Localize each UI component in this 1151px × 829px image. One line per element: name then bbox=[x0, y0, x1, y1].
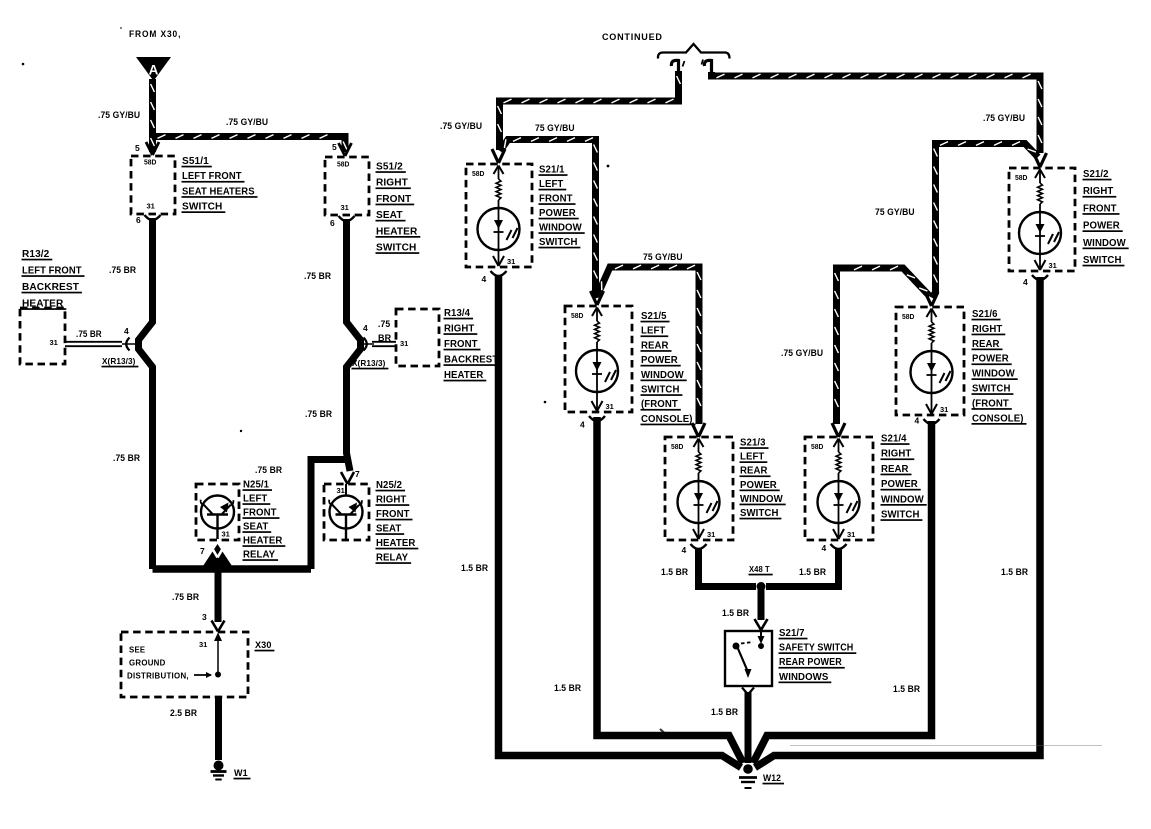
svg-text:W12: W12 bbox=[763, 773, 781, 783]
svg-text:31: 31 bbox=[507, 257, 515, 266]
svg-text:S21/6: S21/6 bbox=[972, 309, 998, 320]
svg-text:REAR: REAR bbox=[641, 340, 669, 351]
label .75 BR bbox=[172, 592, 199, 603]
svg-text:31: 31 bbox=[1049, 261, 1057, 270]
scan flecks bbox=[22, 63, 610, 432]
label .75 BR bbox=[113, 453, 140, 464]
svg-text:1.5 BR: 1.5 BR bbox=[461, 563, 488, 574]
svg-text:31: 31 bbox=[147, 202, 155, 211]
label S21/4 bbox=[881, 434, 927, 521]
svg-text:BACKREST: BACKREST bbox=[444, 355, 498, 366]
svg-text:N25/2: N25/2 bbox=[376, 480, 402, 491]
svg-text:3: 3 bbox=[202, 612, 207, 622]
svg-text:SWITCH: SWITCH bbox=[1083, 255, 1122, 266]
svg-text:31: 31 bbox=[400, 339, 408, 348]
junction triangle relay to ground bus bbox=[201, 544, 234, 569]
wire .75 BR branch to ground bus bbox=[311, 460, 345, 570]
svg-text:WINDOW: WINDOW bbox=[881, 494, 924, 505]
label 1.5 BR bbox=[711, 707, 738, 718]
svg-text:6: 6 bbox=[136, 215, 141, 225]
label S21/6 bbox=[972, 309, 1027, 425]
svg-text:.75 BR: .75 BR bbox=[76, 329, 102, 339]
svg-text:RIGHT: RIGHT bbox=[972, 324, 1002, 335]
svg-text:WINDOW: WINDOW bbox=[641, 370, 684, 381]
pin 7 N25/2 bbox=[355, 469, 360, 479]
wire .75 GY/BU continued to S21/1 bbox=[498, 71, 681, 150]
ground W12 bbox=[739, 764, 757, 788]
label X48 T bbox=[749, 564, 773, 575]
junction arrow into S21/5 bbox=[591, 291, 604, 305]
svg-text:LEFT FRONT: LEFT FRONT bbox=[22, 265, 82, 277]
svg-text:POWER: POWER bbox=[539, 208, 576, 219]
svg-text:1.5 BR: 1.5 BR bbox=[1001, 567, 1028, 578]
wire 2.5 BR X30 to ground W1 bbox=[215, 697, 222, 760]
svg-text:SWITCH: SWITCH bbox=[740, 508, 779, 519]
svg-text:31: 31 bbox=[606, 402, 614, 411]
svg-text:SWITCH: SWITCH bbox=[641, 385, 680, 396]
svg-text:2.5 BR: 2.5 BR bbox=[170, 708, 197, 719]
relay N25/2 bbox=[324, 484, 369, 540]
svg-text:4: 4 bbox=[822, 543, 827, 553]
wire 1.5 BR node to S21/7 bbox=[758, 587, 765, 621]
svg-text:LEFT: LEFT bbox=[243, 494, 267, 505]
svg-text:5: 5 bbox=[135, 143, 140, 153]
label .75 GY/BU bbox=[535, 123, 575, 134]
svg-text:.75 GY/BU: .75 GY/BU bbox=[226, 117, 268, 128]
wire .75 BR S51/2 to relay N25/2 bbox=[347, 219, 361, 471]
svg-text:WINDOWS: WINDOWS bbox=[779, 672, 829, 683]
svg-text:RELAY: RELAY bbox=[376, 553, 408, 564]
label 1.5 BR bbox=[893, 684, 920, 695]
svg-text:.75 GY/BU: .75 GY/BU bbox=[781, 348, 823, 359]
label S51/1 bbox=[182, 155, 258, 213]
svg-text:FRONT: FRONT bbox=[539, 194, 573, 205]
label N25/2 bbox=[376, 480, 419, 564]
pin 5 S51/1 bbox=[135, 143, 140, 153]
connector X(R13/3) right socket bbox=[361, 338, 397, 351]
svg-text:7: 7 bbox=[355, 469, 360, 479]
label 75 GY/BU bbox=[875, 207, 915, 218]
svg-text:31: 31 bbox=[940, 405, 948, 414]
wire 1.5 BR S21/4 to node X48T bbox=[766, 549, 839, 587]
svg-text:58D: 58D bbox=[671, 444, 683, 451]
label S21/2 bbox=[1083, 169, 1129, 266]
wire .75 GY/BU to S51/2 bbox=[153, 135, 347, 152]
junction arrow into S21/1 bbox=[492, 149, 505, 163]
switch S51/2 bbox=[325, 157, 369, 215]
connector arrow into S51/2 bbox=[339, 143, 352, 156]
junction arrow into S21/3 bbox=[692, 423, 705, 437]
label S21/3 bbox=[740, 438, 786, 520]
label S51/2 bbox=[376, 161, 421, 254]
connector arrow into X30 bbox=[212, 621, 225, 632]
svg-text:1.5 BR: 1.5 BR bbox=[661, 567, 688, 578]
wire 1.5 BR S21/6 to ground W12 bbox=[753, 421, 932, 763]
power window switch S21/1 bbox=[466, 164, 532, 284]
svg-text:1.5 BR: 1.5 BR bbox=[893, 684, 920, 695]
label .75 GY/BU bbox=[781, 348, 823, 359]
svg-text:7: 7 bbox=[200, 546, 205, 556]
label .75 GY/BU bbox=[440, 121, 482, 132]
label .75 BR bbox=[378, 319, 392, 343]
svg-text:X(R13/3): X(R13/3) bbox=[352, 358, 386, 368]
svg-text:CONTINUED: CONTINUED bbox=[602, 32, 663, 43]
svg-text:LEFT FRONT: LEFT FRONT bbox=[182, 170, 242, 182]
svg-text:SEAT: SEAT bbox=[376, 524, 401, 535]
svg-text:REAR: REAR bbox=[972, 339, 1000, 350]
svg-text:CONSOLE): CONSOLE) bbox=[972, 413, 1024, 424]
svg-text:LEFT: LEFT bbox=[740, 452, 764, 463]
pin 5 S51/2 bbox=[332, 142, 337, 152]
wire 1.5 BR S21/7 to ground W12 bbox=[745, 692, 752, 763]
svg-text:WINDOW: WINDOW bbox=[972, 369, 1015, 380]
label 1.5 BR bbox=[554, 683, 581, 694]
pin 4 bbox=[124, 326, 129, 336]
svg-text:POWER: POWER bbox=[881, 479, 918, 490]
label 75 GY/BU bbox=[643, 252, 683, 263]
svg-text:.75 BR: .75 BR bbox=[109, 265, 136, 276]
svg-text:SEE: SEE bbox=[129, 646, 146, 655]
svg-text:POWER: POWER bbox=[740, 480, 777, 491]
pin 6 S51/2 bbox=[330, 218, 335, 228]
heater R13/2 bbox=[20, 308, 65, 364]
svg-text:58D: 58D bbox=[144, 160, 156, 167]
svg-text:31: 31 bbox=[847, 530, 855, 539]
svg-text:.75 GY/BU: .75 GY/BU bbox=[98, 110, 140, 121]
svg-text:SEAT HEATERS: SEAT HEATERS bbox=[182, 185, 255, 197]
svg-text:58D: 58D bbox=[571, 313, 583, 320]
svg-text:POWER: POWER bbox=[972, 354, 1009, 365]
svg-text:REAR: REAR bbox=[740, 466, 768, 477]
svg-text:REAR: REAR bbox=[881, 464, 909, 475]
svg-text:1.5 BR: 1.5 BR bbox=[722, 608, 749, 619]
svg-text:SWITCH: SWITCH bbox=[539, 237, 578, 248]
label 1.5 BR bbox=[799, 567, 826, 578]
svg-text:HEATER: HEATER bbox=[444, 370, 484, 381]
label R13/2 bbox=[22, 248, 85, 310]
svg-text:75 GY/BU: 75 GY/BU bbox=[643, 252, 683, 263]
connector arrow into N25/2 bbox=[341, 472, 354, 484]
svg-text:SWITCH: SWITCH bbox=[881, 510, 920, 521]
svg-text:31: 31 bbox=[707, 530, 715, 539]
svg-text:4: 4 bbox=[363, 323, 368, 333]
svg-text:FRONT: FRONT bbox=[376, 193, 412, 205]
svg-text:POWER: POWER bbox=[641, 355, 678, 366]
label X(R13/3) bbox=[102, 356, 139, 367]
svg-text:LEFT: LEFT bbox=[641, 326, 665, 337]
svg-text:RIGHT: RIGHT bbox=[376, 495, 406, 506]
svg-text:HEATER: HEATER bbox=[376, 225, 418, 237]
wire .75 GY/BU arrow A to S51/1 bbox=[151, 79, 155, 152]
wire .75 GY/BU S21/5 junction to S21/3 bbox=[598, 265, 701, 424]
svg-text:31: 31 bbox=[341, 203, 349, 212]
label 1.5 BR bbox=[461, 563, 488, 574]
wire 1.5 BR S21/3 to node X48T bbox=[699, 549, 757, 587]
label 1.5 BR bbox=[661, 567, 688, 578]
svg-text:S21/7: S21/7 bbox=[779, 628, 805, 639]
svg-text:': ' bbox=[120, 26, 122, 35]
svg-text:S51/1: S51/1 bbox=[182, 155, 209, 167]
wire 1.5 BR S21/2 to ground W12 bbox=[755, 277, 1040, 768]
svg-text:58D: 58D bbox=[472, 171, 484, 178]
svg-text:HEATER: HEATER bbox=[243, 536, 283, 547]
label .75 BR bbox=[305, 409, 332, 420]
svg-text:1.5 BR: 1.5 BR bbox=[554, 683, 581, 694]
svg-text:SWITCH: SWITCH bbox=[972, 384, 1011, 395]
svg-text:4: 4 bbox=[124, 326, 129, 336]
power window switch S21/5 bbox=[565, 306, 632, 430]
svg-text:POWER: POWER bbox=[1083, 221, 1120, 232]
connector cup S21/7 out bbox=[742, 688, 754, 695]
svg-text:4: 4 bbox=[482, 274, 487, 284]
wire .75 BR bus to X30 bbox=[215, 569, 222, 622]
power window switch S21/4 bbox=[805, 437, 873, 553]
svg-text:HEATER: HEATER bbox=[376, 538, 416, 549]
connector X30 bbox=[121, 632, 248, 697]
svg-text:SAFETY SWITCH: SAFETY SWITCH bbox=[779, 643, 853, 654]
svg-text:BACKREST: BACKREST bbox=[22, 281, 79, 293]
svg-text:31: 31 bbox=[337, 486, 345, 495]
svg-text:LEFT: LEFT bbox=[539, 179, 563, 190]
svg-text:WINDOW: WINDOW bbox=[539, 223, 582, 234]
junction arrow into S21/6 bbox=[925, 292, 938, 306]
svg-text:X48 T: X48 T bbox=[749, 564, 770, 574]
label W1 bbox=[234, 768, 251, 779]
svg-text:S21/5: S21/5 bbox=[641, 311, 667, 322]
safety switch S21/7 bbox=[725, 631, 772, 686]
svg-text:58D: 58D bbox=[902, 314, 914, 321]
label R13/4 bbox=[444, 308, 502, 381]
svg-text:R13/2: R13/2 bbox=[22, 248, 49, 260]
power window switch S21/3 bbox=[665, 437, 733, 555]
svg-text:.75 BR: .75 BR bbox=[255, 465, 282, 476]
svg-text:4: 4 bbox=[1023, 277, 1028, 287]
wire .75 GY/BU S21/2 junction to S21/6 bbox=[933, 142, 1039, 298]
power window switch S21/2 bbox=[1009, 168, 1075, 287]
junction arrow into S21/4 bbox=[832, 423, 845, 437]
svg-text:1.5 BR: 1.5 BR bbox=[711, 707, 738, 718]
label 1.5 BR bbox=[1001, 567, 1028, 578]
svg-text:4: 4 bbox=[915, 416, 920, 426]
svg-text:SEAT: SEAT bbox=[243, 522, 268, 533]
svg-text:.75: .75 bbox=[378, 319, 390, 329]
svg-text:FRONT: FRONT bbox=[1083, 203, 1117, 214]
svg-text:RIGHT: RIGHT bbox=[1083, 186, 1113, 197]
svg-text:58D: 58D bbox=[811, 444, 823, 451]
connector X(R13/3) socket bbox=[126, 338, 129, 351]
label .75 GY/BU bbox=[226, 117, 268, 128]
label CONTINUED bbox=[602, 32, 663, 43]
wire 1.5 BR S21/5 to ground W12 bbox=[597, 417, 743, 763]
node X48 T bbox=[757, 582, 766, 591]
svg-text:R13/4: R13/4 bbox=[444, 308, 470, 319]
svg-text:S21/4: S21/4 bbox=[881, 434, 907, 445]
ground W1 bbox=[211, 761, 227, 780]
svg-text:S51/2: S51/2 bbox=[376, 161, 403, 173]
svg-text:.75 BR: .75 BR bbox=[305, 409, 332, 420]
svg-text:FRONT: FRONT bbox=[243, 508, 277, 519]
connector half right bbox=[702, 60, 712, 75]
svg-text:31: 31 bbox=[222, 530, 230, 539]
wire .75 GY/BU continued to S21/2 bbox=[712, 72, 1042, 153]
label .75 GY/BU bbox=[983, 113, 1025, 124]
pin 7 N25/1 bbox=[200, 546, 205, 556]
svg-text:S21/1: S21/1 bbox=[539, 165, 565, 176]
pin 3 bbox=[202, 612, 207, 622]
svg-text:58D: 58D bbox=[337, 162, 349, 169]
svg-text:4: 4 bbox=[682, 545, 687, 555]
svg-text:31: 31 bbox=[199, 640, 207, 649]
svg-text:.75 GY/BU: .75 GY/BU bbox=[440, 121, 482, 132]
svg-text:.75 BR: .75 BR bbox=[304, 271, 331, 282]
svg-text:FROM X30,: FROM X30, bbox=[129, 29, 181, 40]
label .75 GY/BU bbox=[98, 110, 140, 121]
label 1.5 BR bbox=[722, 608, 749, 619]
junction arrow into S21/2 bbox=[1034, 153, 1047, 167]
svg-text:GROUND: GROUND bbox=[129, 659, 166, 668]
svg-text:SWITCH: SWITCH bbox=[182, 201, 222, 213]
svg-text:S21/2: S21/2 bbox=[1083, 169, 1109, 180]
pin 4 X(R13/3) right bbox=[363, 323, 368, 333]
svg-text:WINDOW: WINDOW bbox=[1083, 238, 1126, 249]
svg-text:.75 GY/BU: .75 GY/BU bbox=[983, 113, 1025, 124]
label 2.5 BR bbox=[170, 708, 197, 719]
svg-text:5: 5 bbox=[332, 142, 337, 152]
label S21/5 bbox=[641, 311, 696, 425]
svg-text:6: 6 bbox=[330, 218, 335, 228]
pin 6 S51/1 bbox=[136, 215, 141, 225]
svg-text:N25/1: N25/1 bbox=[243, 480, 269, 491]
svg-text:RIGHT: RIGHT bbox=[444, 324, 474, 335]
svg-text:A: A bbox=[149, 63, 159, 78]
svg-text:.75 BR: .75 BR bbox=[172, 592, 199, 603]
heater R13/4 bbox=[396, 309, 439, 366]
svg-text:X30: X30 bbox=[255, 640, 272, 651]
svg-text:58D: 58D bbox=[1015, 175, 1027, 182]
connector half left bbox=[671, 60, 684, 73]
connector arrow A from X30 bbox=[136, 57, 171, 81]
label X30 bbox=[255, 640, 275, 651]
label FROM X30 bbox=[120, 26, 181, 40]
label .75 BR bbox=[76, 329, 102, 339]
svg-text:RIGHT: RIGHT bbox=[376, 177, 408, 189]
svg-text:4: 4 bbox=[580, 420, 585, 430]
svg-text:S21/3: S21/3 bbox=[740, 438, 766, 449]
connector arrow into S21/7 bbox=[755, 619, 768, 630]
label S21/1 bbox=[539, 165, 585, 249]
label W12 bbox=[763, 773, 785, 784]
svg-text:31: 31 bbox=[50, 338, 58, 347]
svg-text:FRONT: FRONT bbox=[444, 339, 478, 350]
svg-text:W1: W1 bbox=[234, 768, 248, 778]
svg-text:X(R13/3): X(R13/3) bbox=[102, 356, 136, 366]
wire .75 GY/BU S21/6 junction to S21/4 bbox=[835, 266, 930, 424]
power window switch S21/6 bbox=[896, 307, 964, 426]
wire .75 GY/BU S21/1 junction to S21/5 bbox=[500, 138, 597, 298]
svg-text:DISTRIBUTION,: DISTRIBUTION, bbox=[127, 672, 189, 681]
svg-text:WINDOW: WINDOW bbox=[740, 494, 783, 505]
connector arrow into S51/1 bbox=[146, 142, 159, 155]
connector cup S51/1 out bbox=[145, 215, 161, 220]
wire ground bus bbox=[153, 565, 312, 573]
wire .75 BR S51/1 to ground bus bbox=[139, 218, 153, 569]
svg-text:75 GY/BU: 75 GY/BU bbox=[875, 207, 915, 218]
label N25/1 bbox=[243, 480, 286, 561]
label .75 BR bbox=[255, 465, 282, 476]
svg-text:RELAY: RELAY bbox=[243, 550, 275, 561]
label S21/7 bbox=[779, 628, 857, 683]
connector cup S51/2 out bbox=[339, 216, 355, 221]
label .75 BR bbox=[304, 271, 331, 282]
svg-text:(FRONT: (FRONT bbox=[641, 399, 678, 410]
svg-text:SWITCH: SWITCH bbox=[376, 242, 416, 254]
svg-text:(FRONT: (FRONT bbox=[972, 398, 1009, 409]
relay N25/1 bbox=[196, 484, 239, 540]
svg-text:.75 BR: .75 BR bbox=[113, 453, 140, 464]
label .75 BR bbox=[109, 265, 136, 276]
wire 1.5 BR S21/1 to ground W12 bbox=[499, 275, 742, 768]
switch S51/1 bbox=[131, 156, 175, 214]
svg-text:1.5 BR: 1.5 BR bbox=[799, 567, 826, 578]
wire .75 BR R13/2 to X(R13/3) bbox=[65, 342, 136, 346]
svg-text:75 GY/BU: 75 GY/BU bbox=[535, 123, 575, 134]
brace bbox=[658, 44, 730, 59]
label X(R13/3) bbox=[352, 358, 389, 369]
svg-text:FRONT: FRONT bbox=[376, 509, 410, 520]
svg-text:SEAT: SEAT bbox=[376, 209, 403, 221]
scan artifact line bbox=[660, 729, 1102, 746]
svg-text:RIGHT: RIGHT bbox=[881, 449, 911, 460]
svg-text:CONSOLE): CONSOLE) bbox=[641, 414, 693, 425]
svg-text:REAR POWER: REAR POWER bbox=[779, 657, 842, 668]
